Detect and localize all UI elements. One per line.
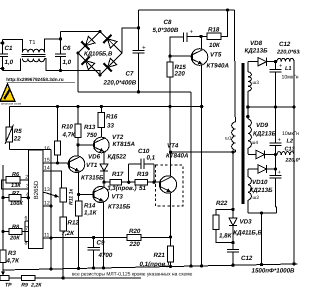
wire VT3 emitter	[102, 202, 105, 269]
wire mains input stub bottom	[0, 67, 4, 70]
capacitor C12	[270, 41, 304, 109]
svg-text:VD3: VD3	[240, 219, 253, 226]
wire w2 bottom	[247, 200, 249, 213]
winding w2	[248, 177, 260, 201]
svg-text:33: 33	[107, 123, 114, 130]
wire pin 6	[25, 216, 29, 222]
svg-text:L1: L1	[285, 66, 292, 72]
wire bridge plus riser	[122, 26, 140, 53]
diode VD9	[248, 122, 277, 159]
wire VT5 collector	[201, 36, 203, 48]
wire VT5 emitter drop to ground	[200, 107, 203, 268]
wire R20 segment	[92, 236, 127, 239]
wire R20 to VT4 emitter	[141, 237, 171, 239]
svg-text:2,2К: 2,2К	[30, 283, 42, 289]
wire w2 top	[247, 169, 249, 177]
wire pins 6-8 tie	[24, 221, 26, 242]
svg-text:220,0*400В: 220,0*400В	[103, 80, 137, 87]
wire pin 13 wiper arrow	[43, 187, 59, 198]
capacitor C7	[103, 10, 147, 92]
svg-text:КД213Б: КД213Б	[253, 131, 277, 138]
svg-text:51: 51	[139, 185, 146, 192]
resistor R11 trimmer	[60, 188, 74, 217]
resistor R8	[1, 225, 28, 242]
svg-text:http://x2996792458.3dn.ru: http://x2996792458.3dn.ru	[6, 77, 63, 82]
wire pin 11	[43, 233, 53, 240]
box VT4 dashed	[156, 165, 184, 206]
wire R5 to pin16 riser	[9, 148, 51, 150]
svg-text:0,1: 0,1	[147, 155, 156, 162]
svg-text:VT1: VT1	[86, 162, 98, 169]
wire C8 left to VT5 base node	[170, 37, 184, 56]
wire R19 to VT4 base	[148, 181, 161, 184]
svg-text:С12: С12	[241, 255, 253, 262]
svg-text:R20: R20	[129, 228, 141, 235]
wire HV- bus	[78, 90, 191, 93]
svg-text:16: 16	[44, 146, 50, 152]
svg-text:10К: 10К	[209, 42, 221, 49]
svg-text:C7: C7	[126, 71, 134, 78]
svg-text:КТ315Б: КТ315Б	[108, 204, 131, 211]
resistor R22	[213, 200, 233, 243]
svg-text:1,8К: 1,8К	[219, 233, 233, 240]
transistor VT5	[191, 49, 229, 70]
wire C8 right to R18	[187, 35, 207, 38]
svg-text:VT2: VT2	[112, 134, 124, 141]
wire pin11 bus	[50, 206, 52, 238]
svg-text:C1: C1	[5, 45, 13, 52]
capacitor C13	[270, 107, 311, 164]
transistor VT4	[159, 143, 189, 194]
wire w1 bottom	[234, 150, 236, 152]
wire VT4 collector	[170, 152, 172, 176]
wire T1 bottom to bridge bottom	[45, 58, 101, 75]
svg-text:220,0*63В: 220,0*63В	[285, 158, 301, 164]
wire VT1 emitter	[77, 173, 80, 197]
wire pin 8	[25, 241, 29, 247]
resistor R21	[140, 238, 174, 269]
svg-text:C8: C8	[164, 19, 172, 26]
wire VD8 out	[267, 60, 278, 63]
capacitor C10	[129, 148, 156, 182]
resistor R13	[75, 107, 98, 156]
wire VD9 out	[265, 153, 278, 156]
svg-text:R12: R12	[68, 220, 80, 227]
capacitor C9	[87, 238, 112, 270]
wire pin 3	[2, 180, 30, 190]
transformer T1 filter choke	[22, 40, 46, 62]
wire VD6 to R17 node	[102, 181, 110, 184]
svg-text:R17: R17	[112, 171, 124, 178]
resistor R14	[76, 195, 98, 270]
wire feedback rail	[2, 165, 4, 250]
svg-text:R11 1к: R11 1к	[68, 189, 74, 205]
svg-text:КТ315Б: КТ315Б	[81, 175, 104, 182]
svg-text:R10: R10	[62, 124, 74, 131]
svg-text:T1: T1	[29, 40, 36, 46]
svg-text:7,2К: 7,2К	[62, 230, 76, 237]
svg-text:3: 3	[26, 183, 29, 189]
label pin 16	[44, 146, 50, 152]
svg-text:R3: R3	[8, 250, 16, 257]
wire collector to w1	[171, 150, 236, 153]
svg-text:12: 12	[44, 201, 50, 207]
wire control rail	[9, 105, 203, 108]
svg-text:C6: C6	[63, 45, 71, 52]
diode bridge VD2 upper-right	[100, 32, 122, 54]
svg-text:1500пФ*1000В: 1500пФ*1000В	[252, 268, 296, 275]
svg-text:VT5: VT5	[210, 52, 222, 59]
svg-text:VT3: VT3	[112, 194, 124, 201]
svg-text:КД213Б: КД213Б	[250, 187, 274, 194]
wire VT5 base	[168, 55, 192, 58]
diode VD8	[245, 40, 269, 66]
wire top HV+ bus	[139, 8, 235, 11]
svg-text:VD6: VD6	[88, 154, 101, 161]
label bridge type	[84, 51, 113, 58]
wire VT1 collector to VT2 base	[76, 143, 93, 146]
wire w3 top	[247, 62, 249, 72]
wire snubber riser	[231, 152, 234, 211]
diode VD3	[229, 209, 263, 244]
resistor R16	[98, 107, 118, 138]
wire VT3 base	[79, 194, 94, 196]
label site url	[6, 77, 75, 82]
label note	[72, 272, 193, 278]
svg-text:R22: R22	[216, 200, 228, 207]
node bridge minus to HV- bus	[76, 51, 101, 91]
wire VD10 out	[267, 167, 278, 170]
resistor R7	[1, 191, 30, 207]
svg-text:все резисторы МЛТ-0,125 кроме: все резисторы МЛТ-0,125 кроме указанных …	[72, 272, 193, 278]
wire HV- bus drop	[189, 92, 192, 268]
svg-text:R9: R9	[21, 283, 28, 289]
svg-text:КД105Б,В: КД105Б,В	[84, 51, 113, 58]
resistor R3	[0, 250, 20, 270]
svg-text:R19: R19	[137, 171, 149, 178]
wire pin 14 to R11	[43, 166, 62, 189]
svg-text:R5: R5	[14, 128, 22, 135]
capacitor C15 filter	[270, 155, 282, 214]
svg-text:КТ840А: КТ840А	[166, 153, 189, 160]
svg-text:VD9: VD9	[256, 122, 269, 129]
winding w3	[248, 72, 260, 91]
svg-text:R14: R14	[84, 203, 96, 210]
wire pin 15 to VT1 base	[43, 158, 67, 165]
svg-text:1,0: 1,0	[5, 59, 14, 66]
wire pin 12	[43, 201, 53, 208]
capacitor C14	[227, 243, 295, 275]
resistor R19	[135, 171, 149, 192]
winding w1 primary	[225, 10, 235, 150]
svg-text:VT4: VT4	[167, 143, 179, 150]
svg-text:220: 220	[174, 71, 186, 78]
svg-text:5,0*300В: 5,0*300В	[153, 27, 179, 34]
svg-text:ТР: ТР	[5, 283, 12, 289]
svg-text:100К: 100К	[10, 201, 23, 207]
svg-text:4,7К: 4,7К	[6, 258, 21, 265]
svg-text:С9: С9	[97, 240, 105, 247]
svg-text:авторская схема: авторская схема	[1, 103, 22, 106]
winding w4	[248, 119, 259, 148]
wire feedback bus	[35, 276, 141, 279]
inductor L2	[277, 152, 294, 155]
resistor R15	[167, 56, 187, 106]
svg-text:R18: R18	[208, 27, 220, 34]
wire rail to collector	[169, 107, 172, 154]
svg-text:С12: С12	[279, 41, 291, 48]
ic U1 B265D	[28, 150, 43, 249]
diode bridge VD1 upper-left	[78, 32, 100, 54]
svg-text:R21: R21	[154, 252, 166, 259]
wire w3-w4 tap	[246, 91, 249, 119]
svg-text:13: 13	[44, 187, 50, 193]
svg-text:R7: R7	[12, 191, 20, 197]
svg-text:КД411Б,В: КД411Б,В	[233, 230, 262, 237]
wire VT4 emitter	[169, 193, 172, 239]
resistor R17	[107, 171, 137, 192]
label pin 16	[0, 0, 1, 1]
wire C1 to T1 bottom	[3, 58, 21, 70]
transformer core	[241, 63, 244, 204]
svg-text:R16: R16	[106, 114, 118, 121]
svg-text:ш3: ш3	[253, 80, 260, 86]
wire output right edge	[292, 62, 295, 266]
svg-text:750: 750	[87, 132, 98, 139]
wire mains input stub top	[0, 41, 4, 44]
svg-text:VD8: VD8	[250, 40, 263, 47]
svg-text:15: 15	[44, 158, 50, 164]
wire VT2 emitter	[0, 0, 1, 1]
svg-text:ш4: ш4	[252, 140, 259, 146]
diode bridge VD4 lower-left	[78, 53, 100, 75]
wire R18 to top bus	[221, 10, 228, 36]
resistor R6	[6, 172, 28, 189]
svg-text:В265D: В265D	[33, 180, 40, 199]
svg-text:1,1К: 1,1К	[84, 210, 98, 217]
svg-text:10мкГн: 10мкГн	[282, 75, 299, 81]
wire secondary gnd link	[260, 213, 263, 266]
diode VD10	[248, 165, 273, 194]
capacitor C8	[153, 19, 194, 42]
svg-text:КТ940А: КТ940А	[207, 63, 230, 70]
diode bridge VD5 lower-right	[100, 53, 122, 75]
resistor R12	[60, 217, 79, 278]
svg-text:2: 2	[25, 174, 28, 180]
svg-text:R8: R8	[12, 225, 20, 231]
svg-text:L2: L2	[287, 139, 294, 145]
resistor R10	[54, 107, 76, 164]
inductor L1	[277, 58, 299, 80]
svg-text:6: 6	[25, 216, 28, 222]
svg-text:VD10: VD10	[252, 179, 268, 186]
svg-text:ш1: ш1	[225, 136, 232, 142]
svg-text:10мкГн: 10мкГн	[282, 131, 299, 137]
svg-text:+: +	[142, 45, 146, 52]
thermistor R5	[5, 107, 22, 150]
resistor R20	[127, 228, 141, 248]
wire pin11 to R20	[51, 237, 94, 239]
wire VT5 emitter	[201, 65, 203, 106]
wire VT1 base	[67, 162, 70, 164]
logo warning triangle	[0, 84, 22, 106]
svg-text:КД522: КД522	[108, 154, 127, 161]
svg-text:14: 14	[44, 166, 50, 172]
transistor VT3	[93, 187, 131, 211]
capacitor C1	[0, 40, 14, 71]
wire C6 node to bridge top	[61, 30, 102, 33]
svg-text:КТ815А: КТ815А	[113, 141, 136, 148]
svg-text:11: 11	[44, 233, 49, 239]
svg-text:22: 22	[13, 136, 21, 143]
resistor TR trimmer	[0, 276, 12, 289]
diode VD6	[88, 153, 127, 187]
svg-text:1,0: 1,0	[63, 59, 72, 66]
wire primary ground bus	[3, 264, 298, 270]
wire secondary gnd bus	[248, 105, 296, 108]
wire pin16 riser down	[49, 149, 52, 270]
wire lower secondary gnd	[248, 211, 277, 214]
svg-text:4,7К: 4,7К	[62, 132, 77, 139]
svg-text:7: 7	[25, 226, 28, 232]
transistor VT2	[94, 134, 136, 153]
svg-text:13К: 13К	[11, 183, 21, 189]
svg-text:R13: R13	[84, 124, 96, 131]
wire TR to R9	[9, 277, 21, 279]
svg-text:3,3(пров.): 3,3(пров.)	[107, 185, 137, 192]
wire R3 to TR wiper	[1, 270, 5, 275]
transistor VT1	[68, 156, 104, 182]
svg-text:220: 220	[129, 241, 141, 248]
svg-text:20К: 20К	[9, 236, 20, 242]
wire w4 bottom	[247, 148, 249, 154]
wire C1 to T1 top	[3, 40, 23, 53]
resistor R9	[21, 276, 42, 289]
wire R17 to R19	[122, 181, 136, 184]
svg-text:R6: R6	[12, 172, 20, 178]
svg-text:4700: 4700	[98, 252, 113, 259]
svg-text:+: +	[190, 29, 194, 36]
svg-text:КД213Б: КД213Б	[245, 48, 269, 55]
capacitor C6	[55, 39, 72, 71]
svg-text:220,0*63В: 220,0*63В	[276, 50, 300, 56]
svg-text:ш2: ш2	[253, 195, 260, 201]
wire T1 top right to C6	[45, 32, 63, 53]
resistor R18	[207, 27, 221, 50]
